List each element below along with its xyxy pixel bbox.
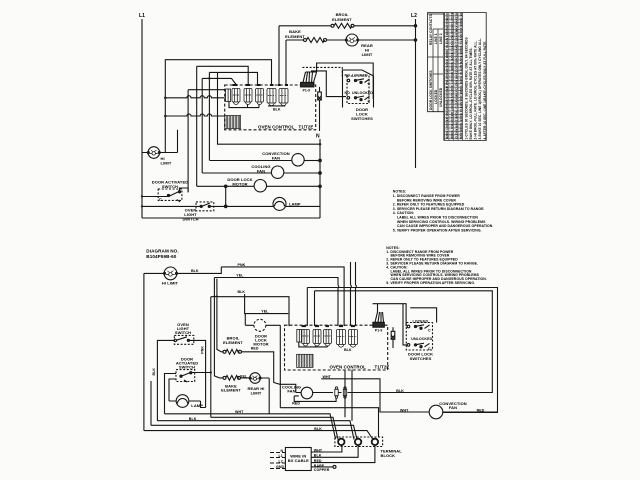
label C unlocked (top) <box>368 99 371 103</box>
svg-text:SWITCH: SWITCH <box>182 216 198 221</box>
connector P1 (top control) <box>301 82 314 87</box>
label BLK cooling return <box>396 389 404 393</box>
relay pin marks group1 (bottom control) <box>302 325 330 327</box>
svg-text:NO: NO <box>345 91 351 95</box>
wire cooling fan line (top) <box>202 172 321 175</box>
wire lamp loop box (bottom) <box>165 374 177 414</box>
table left sub-box divider <box>428 13 445 15</box>
svg-text:BROIL UNLOCKED LOCKED UNLOCK L: BROIL UNLOCKED LOCKED UNLOCK LOCKED BROI… <box>450 0 454 139</box>
svg-text:HI LIMIT: HI LIMIT <box>162 281 179 286</box>
svg-text:BAKE ONLY. LO BROIL-CYCLES 60: BAKE ONLY. LO BROIL-CYCLES 60% RATE AT A… <box>469 47 473 139</box>
BX cable label <box>288 454 309 464</box>
terminal block label <box>381 449 403 458</box>
terminal bolt 2 <box>355 439 361 445</box>
convection fan label (top) <box>262 151 289 161</box>
wire relay bottoms group2 (top control) <box>268 105 285 107</box>
wire L1 to door activated switch (top) <box>142 196 168 198</box>
thermostat HI limit (top) <box>147 147 160 159</box>
resistor bake element (top) <box>304 38 327 43</box>
svg-text:NO: NO <box>345 74 351 78</box>
fuse F1 below connector (bottom) <box>391 327 395 348</box>
oven light switch dashed box (bottom) <box>174 335 194 344</box>
relay edge contact (bottom control) <box>297 330 302 343</box>
fuse F1 below connector (top) <box>318 87 322 131</box>
junction dot neutral return at N (top) <box>319 143 322 146</box>
wire cooling fan lower bracket (bottom) <box>294 396 336 402</box>
svg-text:BLK: BLK <box>344 348 352 352</box>
table header rotated: door lock switches <box>429 70 443 110</box>
node L1 (top) <box>139 13 145 19</box>
svg-text:OVEN CONTROL: OVEN CONTROL <box>330 365 367 370</box>
broil element label (top) <box>332 12 352 22</box>
resistor broil element (top) <box>331 23 354 28</box>
wire switch NO to rail (top) <box>187 188 189 192</box>
switch oven light (top) <box>200 203 210 207</box>
label BLK rail rotated (bottom) <box>152 368 156 376</box>
svg-text:WHT: WHT <box>235 410 244 414</box>
diagram number label <box>146 249 178 260</box>
HI limit label (bottom) <box>162 281 179 286</box>
svg-text:FAN: FAN <box>272 156 280 161</box>
label RED broil <box>251 346 259 350</box>
svg-text:BLK: BLK <box>273 108 281 112</box>
door activated switch dashed box (bottom) <box>176 370 195 382</box>
svg-text:RED: RED <box>292 402 300 406</box>
label WHT convection wire <box>400 408 409 412</box>
terminal bolt 1 <box>338 439 344 445</box>
svg-text:BLK: BLK <box>396 389 404 393</box>
lamp label (top) <box>289 202 301 207</box>
label BLK outer wire <box>314 427 322 431</box>
wire bus6 with jumps (top) <box>165 114 224 116</box>
wire oven light switch right PNK rail (bottom) <box>190 340 206 407</box>
switch unlocked (bottom) <box>407 343 429 348</box>
label N input <box>281 449 284 453</box>
oven control box (bottom) <box>285 325 388 370</box>
svg-text:T1/T2E: T1/T2E <box>299 125 314 130</box>
switch locked (top) <box>347 79 369 84</box>
wire bus2 (top) <box>197 66 249 186</box>
svg-text:OVEN CONTROL: OVEN CONTROL <box>258 125 295 130</box>
svg-text:RELAY CONTACTS: RELAY CONTACTS <box>429 14 433 45</box>
label L2 input <box>279 459 283 463</box>
label GND input <box>276 465 285 469</box>
label WHT control out (bottom) <box>323 375 332 379</box>
svg-text:DOOR LOCK SWITCHES: DOOR LOCK SWITCHES <box>429 70 433 110</box>
label BLK long wire <box>189 417 197 421</box>
motor door lock (bottom) <box>254 319 266 331</box>
table header rotated: relay contacts <box>429 14 443 45</box>
coil block clock (bottom control) <box>297 354 313 367</box>
wire connector dashed to locked NO (top) <box>302 67 342 78</box>
junction dots L1 rail (top) <box>141 195 143 207</box>
label C unlocked (bottom) <box>428 347 431 351</box>
door lock switches dashed box (bottom) <box>406 323 432 351</box>
wire L2 rail (top) <box>415 19 417 168</box>
relay K6 (top control) <box>279 89 288 106</box>
svg-text:YEL: YEL <box>236 273 244 277</box>
svg-text:WHT: WHT <box>323 375 332 379</box>
label L1 input <box>279 454 283 458</box>
thermostat rear HI limit (top) <box>345 34 358 46</box>
svg-text:5. VERIFY PROPER OPERATION AFT: 5. VERIFY PROPER OPERATION AFTER SERVICI… <box>393 228 482 232</box>
svg-text:LOCKED: LOCKED <box>434 89 438 104</box>
wire connector loop to locked switch (bottom) <box>373 304 407 327</box>
label C door switch (top) <box>159 198 162 202</box>
wire WHT control to convection (bottom) <box>321 379 429 412</box>
wire BLK to bolt2 <box>311 445 358 457</box>
wire connector loop to unlocked switch (bottom) <box>403 304 407 345</box>
wire drop to broil element (bottom) <box>217 279 223 352</box>
oven control label (top) <box>258 125 313 130</box>
relay pin marks group2 (top control) <box>270 84 288 86</box>
label RED cooling fan <box>292 402 300 406</box>
wire riser to bolt1 (bottom) <box>345 370 352 421</box>
oven light switch label (bottom) <box>175 322 191 335</box>
oven light switch dashed box (top) <box>196 202 214 211</box>
wire RED motor return (bottom) <box>280 408 378 437</box>
wire broil line (top) <box>279 25 417 27</box>
connector fan wires (top control) <box>303 72 317 82</box>
wire HI limit to PNK riser (bottom) <box>144 267 221 274</box>
wire door lock motor leads (bottom) <box>245 314 280 408</box>
label WHT long wire <box>235 410 244 414</box>
svg-text:L2: L2 <box>411 13 417 19</box>
svg-text:COPPER: COPPER <box>314 468 330 472</box>
relay K2 (top control) <box>244 89 252 105</box>
svg-text:SWITCHES: SWITCHES <box>351 116 373 121</box>
svg-text:PNK: PNK <box>201 346 205 354</box>
svg-text:3-BAKE 10 SEC. LINE 1(BROIL) O: 3-BAKE 10 SEC. LINE 1(BROIL) OPERATES ON… <box>478 38 482 140</box>
door lock switches label (bottom) <box>408 352 433 361</box>
notes text block (top diagram) <box>393 190 494 233</box>
svg-text:C: C <box>428 329 431 333</box>
wire door-switch rail (top) <box>188 90 225 193</box>
wire connector loop to door lock C (top) <box>317 63 374 99</box>
label YEL door lock motor <box>261 309 269 313</box>
svg-text:P1-9: P1-9 <box>303 89 310 93</box>
svg-text:WHT: WHT <box>400 408 409 412</box>
svg-text:L1: L1 <box>139 13 145 19</box>
door lock motor label (bottom) <box>253 334 268 347</box>
wire return outer WHT loop (bottom right) <box>307 288 497 413</box>
HI limit label (top) <box>161 156 172 166</box>
wire riser outer loop (bottom) <box>306 288 308 327</box>
oven control label (bottom) <box>330 365 390 370</box>
wire convection to right rail (bottom) <box>443 411 498 413</box>
svg-text:FAN: FAN <box>287 389 295 394</box>
relay K1 (bottom control) <box>302 330 310 347</box>
svg-text:SWITCHES: SWITCHES <box>410 356 432 361</box>
wire BLK outer long (bottom) <box>144 431 373 440</box>
svg-text:BLK: BLK <box>191 269 199 273</box>
label LOCKED (bottom switches) <box>413 319 429 323</box>
svg-text:SWITCH: SWITCH <box>175 330 191 335</box>
wire line4 (bottom) <box>151 425 357 439</box>
svg-text:LINE 2: LINE 2 <box>439 33 443 44</box>
wire neutral return from control (top) <box>218 72 321 144</box>
lamp B1 (top) <box>273 197 286 210</box>
relay K6 (bottom control) <box>349 330 358 348</box>
wire cooling fan leads (bottom) <box>296 392 319 394</box>
connector P1 label (top control) <box>303 89 310 93</box>
table column lines <box>428 13 463 141</box>
switch locked (bottom) <box>407 325 429 330</box>
door activated switch dashed box (top) <box>158 189 182 200</box>
label PNK wire <box>238 263 246 267</box>
svg-text:P1-9: P1-9 <box>375 328 382 332</box>
relay K5 (bottom control) <box>337 330 346 348</box>
relay K3 (bottom control) <box>324 330 332 347</box>
svg-text:LIMIT: LIMIT <box>362 52 373 57</box>
switch door activated (bottom) <box>180 372 211 382</box>
wire connector to unlocked NO (top) <box>311 71 346 97</box>
svg-text:LAMP: LAMP <box>289 202 301 207</box>
wire BLK to control (bottom) <box>211 296 289 326</box>
door lock switches label (top) <box>351 107 373 121</box>
svg-text:FAN: FAN <box>257 169 265 174</box>
svg-text:MAX BROIL BAKE CLEAN OFF BROIL: MAX BROIL BAKE CLEAN OFF BROIL BAKE CLEA… <box>459 8 463 139</box>
terminal block dashed box <box>335 437 383 447</box>
svg-text:B104P59B-60: B104P59B-60 <box>146 254 176 259</box>
wire bottom rail (top) <box>142 217 320 219</box>
label BLK under relays (bottom control) <box>344 348 352 352</box>
wire HI limit line (top) <box>142 130 178 153</box>
wire connector loop2 to C side (bottom) <box>410 308 436 323</box>
wire bake left drop (top) <box>285 40 287 86</box>
wire cooling fan through connectors (bottom) <box>319 392 349 394</box>
resistor broil element (bottom) <box>223 349 242 354</box>
resistor bake element (bottom) <box>223 376 241 381</box>
wire return inner BLK loop (bottom right) <box>315 291 493 393</box>
table grid underlay <box>444 13 462 141</box>
notes text block (bottom diagram) <box>386 246 487 285</box>
label RED convection <box>477 408 485 412</box>
svg-text:YEL: YEL <box>261 309 269 313</box>
label BLK hi limit wire <box>191 269 199 273</box>
wire lamp to door lock motor riser (top) <box>225 186 227 206</box>
wire L1 stub <box>270 457 285 459</box>
svg-text:LOCKED: LOCKED <box>352 74 368 78</box>
svg-text:C: C <box>368 82 371 86</box>
label C locked (bottom) <box>428 329 431 333</box>
terminal bolt 3 <box>372 439 378 445</box>
svg-text:MOTOR: MOTOR <box>232 182 247 187</box>
label C locked (top) <box>368 82 371 86</box>
svg-text:C: C <box>368 99 371 103</box>
label UNLOCKED (bottom switches) <box>411 337 432 341</box>
svg-text:2-HI BROIL-FULL RATE. LO BROI: 2-HI BROIL-FULL RATE. LO BROIL-CYCLES AT… <box>474 40 478 139</box>
svg-text:BLK: BLK <box>238 290 246 294</box>
oven light switch label (top) <box>182 207 198 221</box>
wire oven light switch left (bottom) <box>157 340 174 420</box>
svg-text:UNLOCKED: UNLOCKED <box>439 87 443 107</box>
wire N rail (top) <box>319 139 321 218</box>
switch oven light (bottom) <box>174 337 189 342</box>
wire YEL (bottom) <box>214 278 338 327</box>
svg-text:C: C <box>159 198 162 202</box>
wire riser inner loop (bottom) <box>314 291 316 326</box>
wire YEL to door lock motor (bottom) <box>245 294 289 314</box>
wire WHT to bolt1 <box>311 445 342 452</box>
switch unlocked (top) <box>347 96 369 101</box>
svg-text:C: C <box>428 347 431 351</box>
node N (top) <box>316 134 320 140</box>
door activated switch label (top) <box>152 180 188 190</box>
wire door lock motor line (top) <box>197 185 322 188</box>
svg-text:CLEAN BAKE BROIL CLEAN MAX CLE: CLEAN BAKE BROIL CLEAN MAX CLEAN BAKE OF… <box>454 6 458 139</box>
label NO UNLOCKED (top) <box>345 91 374 95</box>
svg-text:N: N <box>316 134 320 140</box>
table row lines <box>444 16 462 138</box>
label YEL wire <box>236 273 244 277</box>
bake element label (bottom) <box>221 383 241 392</box>
wire convection fan line (top) <box>210 159 322 162</box>
cooling fan label (bottom) <box>282 385 301 394</box>
svg-text:BAKE LOCKED UNLOCKED LOCKED UN: BAKE LOCKED UNLOCKED LOCKED UNLOCKED BAK… <box>445 0 449 139</box>
relay pin marks group1 (top control) <box>233 84 261 86</box>
connector P1 label (bottom control) <box>375 328 382 332</box>
relay pin marks group2 (bottom control) <box>339 325 355 327</box>
wire bake line (top) <box>286 39 417 41</box>
wire bus5 with jumps (top) <box>165 96 224 98</box>
svg-text:UNLOCKED: UNLOCKED <box>352 91 373 95</box>
svg-text:BLK: BLK <box>189 417 197 421</box>
svg-text:LOCKED: LOCKED <box>413 319 429 323</box>
svg-text:ELEMENT: ELEMENT <box>332 17 352 22</box>
wire lamp line (top) <box>142 205 320 208</box>
motor convection fan (bottom) <box>429 405 443 419</box>
rear HI limit label (bottom) <box>247 386 264 395</box>
junction dot bus3 bus4 (top) <box>208 77 210 79</box>
wire WHT long (bottom) <box>165 414 336 439</box>
relay K5 (top control) <box>267 89 276 106</box>
svg-text:5. VERIFY PROPER OPERATION AFT: 5. VERIFY PROPER OPERATION AFTER SERVICI… <box>386 281 475 285</box>
thermostat HI limit (bottom) <box>164 267 178 280</box>
motor cooling fan (top) <box>271 166 283 178</box>
svg-text:BLK: BLK <box>314 427 322 431</box>
cooling fan label (top) <box>251 164 270 174</box>
label BARE COPPER <box>314 464 330 472</box>
convection fan label (bottom) <box>439 401 466 410</box>
thermostat rear HI limit (bottom) <box>249 373 261 384</box>
svg-text:FAN: FAN <box>449 405 457 410</box>
label YEL bake <box>240 374 248 378</box>
svg-text:ELEMENT: ELEMENT <box>221 388 241 393</box>
oven control box (top) <box>225 85 316 130</box>
wire door activated C drop (bottom) <box>150 381 152 425</box>
wire bare copper <box>311 465 336 468</box>
wire bus4 (top) <box>202 78 236 173</box>
lamp label (bottom) <box>191 403 203 408</box>
wire PNK (bottom) <box>221 267 344 326</box>
motor cooling fan (bottom) <box>301 387 313 399</box>
wire L2 stub <box>270 462 285 464</box>
wire bus1 (top) <box>165 60 271 153</box>
door activated switch label (bottom) <box>176 357 198 370</box>
relay K1 (top control) <box>232 89 240 105</box>
wire RED to bolt3 <box>311 445 375 463</box>
connector pair cooling fan (bottom) <box>335 387 347 398</box>
wire N stub <box>270 452 285 454</box>
svg-text:UNLOCKED: UNLOCKED <box>411 337 432 341</box>
label PNK rail rotated (bottom) <box>201 346 205 354</box>
relay edge contact (top control) <box>226 89 231 102</box>
svg-text:ELEMENT: ELEMENT <box>223 340 243 345</box>
motor door lock (top) <box>254 180 266 192</box>
wire broil left drop (top) <box>278 26 280 86</box>
svg-text:BLOCK: BLOCK <box>381 453 396 458</box>
wire PNK bottom line <box>211 417 338 439</box>
label NO LOCKED (top) <box>345 74 368 78</box>
wire bake to rear hi limit (bottom) <box>241 378 270 414</box>
label WHT output <box>314 448 323 452</box>
svg-text:LIMIT: LIMIT <box>251 390 262 395</box>
wire lamp leads (bottom) <box>169 401 206 408</box>
door lock switches dashed box (top) <box>347 76 369 104</box>
svg-text:DIAGRAM NO.: DIAGRAM NO. <box>146 249 178 254</box>
lamp B2 (bottom) <box>176 395 189 408</box>
table cell texts rotated <box>445 0 463 139</box>
motor convection fan (top) <box>292 154 304 166</box>
coil block clock (top control) <box>225 116 241 129</box>
svg-text:BLK: BLK <box>152 368 156 376</box>
svg-text:SWITCH: SWITCH <box>179 365 195 370</box>
rear HI limit label (top) <box>361 43 373 57</box>
junction dots on L-rail bus (top) <box>164 97 167 118</box>
switch door activated (top) <box>167 188 188 202</box>
wire BLK long (bottom) <box>157 421 354 440</box>
junction dot door switch feed (bottom) <box>210 371 212 373</box>
wire BLK drop rail (bottom) <box>210 297 212 418</box>
svg-text:ELEMENT: ELEMENT <box>285 34 305 39</box>
door lock motor label (top) <box>227 177 252 187</box>
wire bus3 (top) <box>209 72 257 160</box>
svg-text:T1/T2E: T1/T2E <box>375 365 390 370</box>
table right notes rotated <box>464 37 486 139</box>
svg-text:RED: RED <box>251 346 259 350</box>
relay K3 (top control) <box>256 89 264 105</box>
table outer border (L-shape) <box>428 13 487 141</box>
svg-text:LINE 1: LINE 1 <box>434 33 438 44</box>
svg-text:4-AFTER 10 SEC. LINE 1(BAKE) C: 4-AFTER 10 SEC. LINE 1(BAKE) CYCLES ONLY… <box>483 41 487 140</box>
wire relay bottoms group1 (top control) <box>229 102 259 108</box>
wire riser stub 4 (bottom) <box>355 262 358 326</box>
relay K2 (bottom control) <box>313 330 321 347</box>
wire left outer rail (bottom) <box>143 273 145 430</box>
label BLK under relays (top control) <box>273 108 281 112</box>
svg-text:1-CYCLES 30 SECONDS, 8 SECONDS: 1-CYCLES 30 SECONDS, 8 SECONDS BROIL ONL… <box>464 37 468 139</box>
svg-text:PNK: PNK <box>238 263 246 267</box>
svg-text:SWITCH: SWITCH <box>162 184 178 189</box>
label BLK wire (bottom mid) <box>238 290 246 294</box>
svg-text:LIMIT: LIMIT <box>161 161 172 166</box>
wire YEL drop to bake element (bottom) <box>214 278 223 378</box>
label BLK output <box>314 454 322 458</box>
bake element label (top) <box>285 29 305 39</box>
wire GND stub <box>270 468 285 470</box>
label RED output <box>314 459 322 463</box>
node L2 (top) <box>411 13 417 19</box>
wire L1 rail (top) <box>141 19 143 218</box>
connector fan wires (bottom control) <box>375 312 384 322</box>
wire broil to down (bottom) <box>242 352 296 393</box>
broil element label (bottom) <box>223 336 243 345</box>
wire relay bottoms group1 (bottom control) <box>299 342 328 347</box>
connector P1 (bottom control) <box>373 322 384 327</box>
wire riser stub 3 (bottom) <box>350 262 353 326</box>
BX cable box <box>285 448 311 471</box>
